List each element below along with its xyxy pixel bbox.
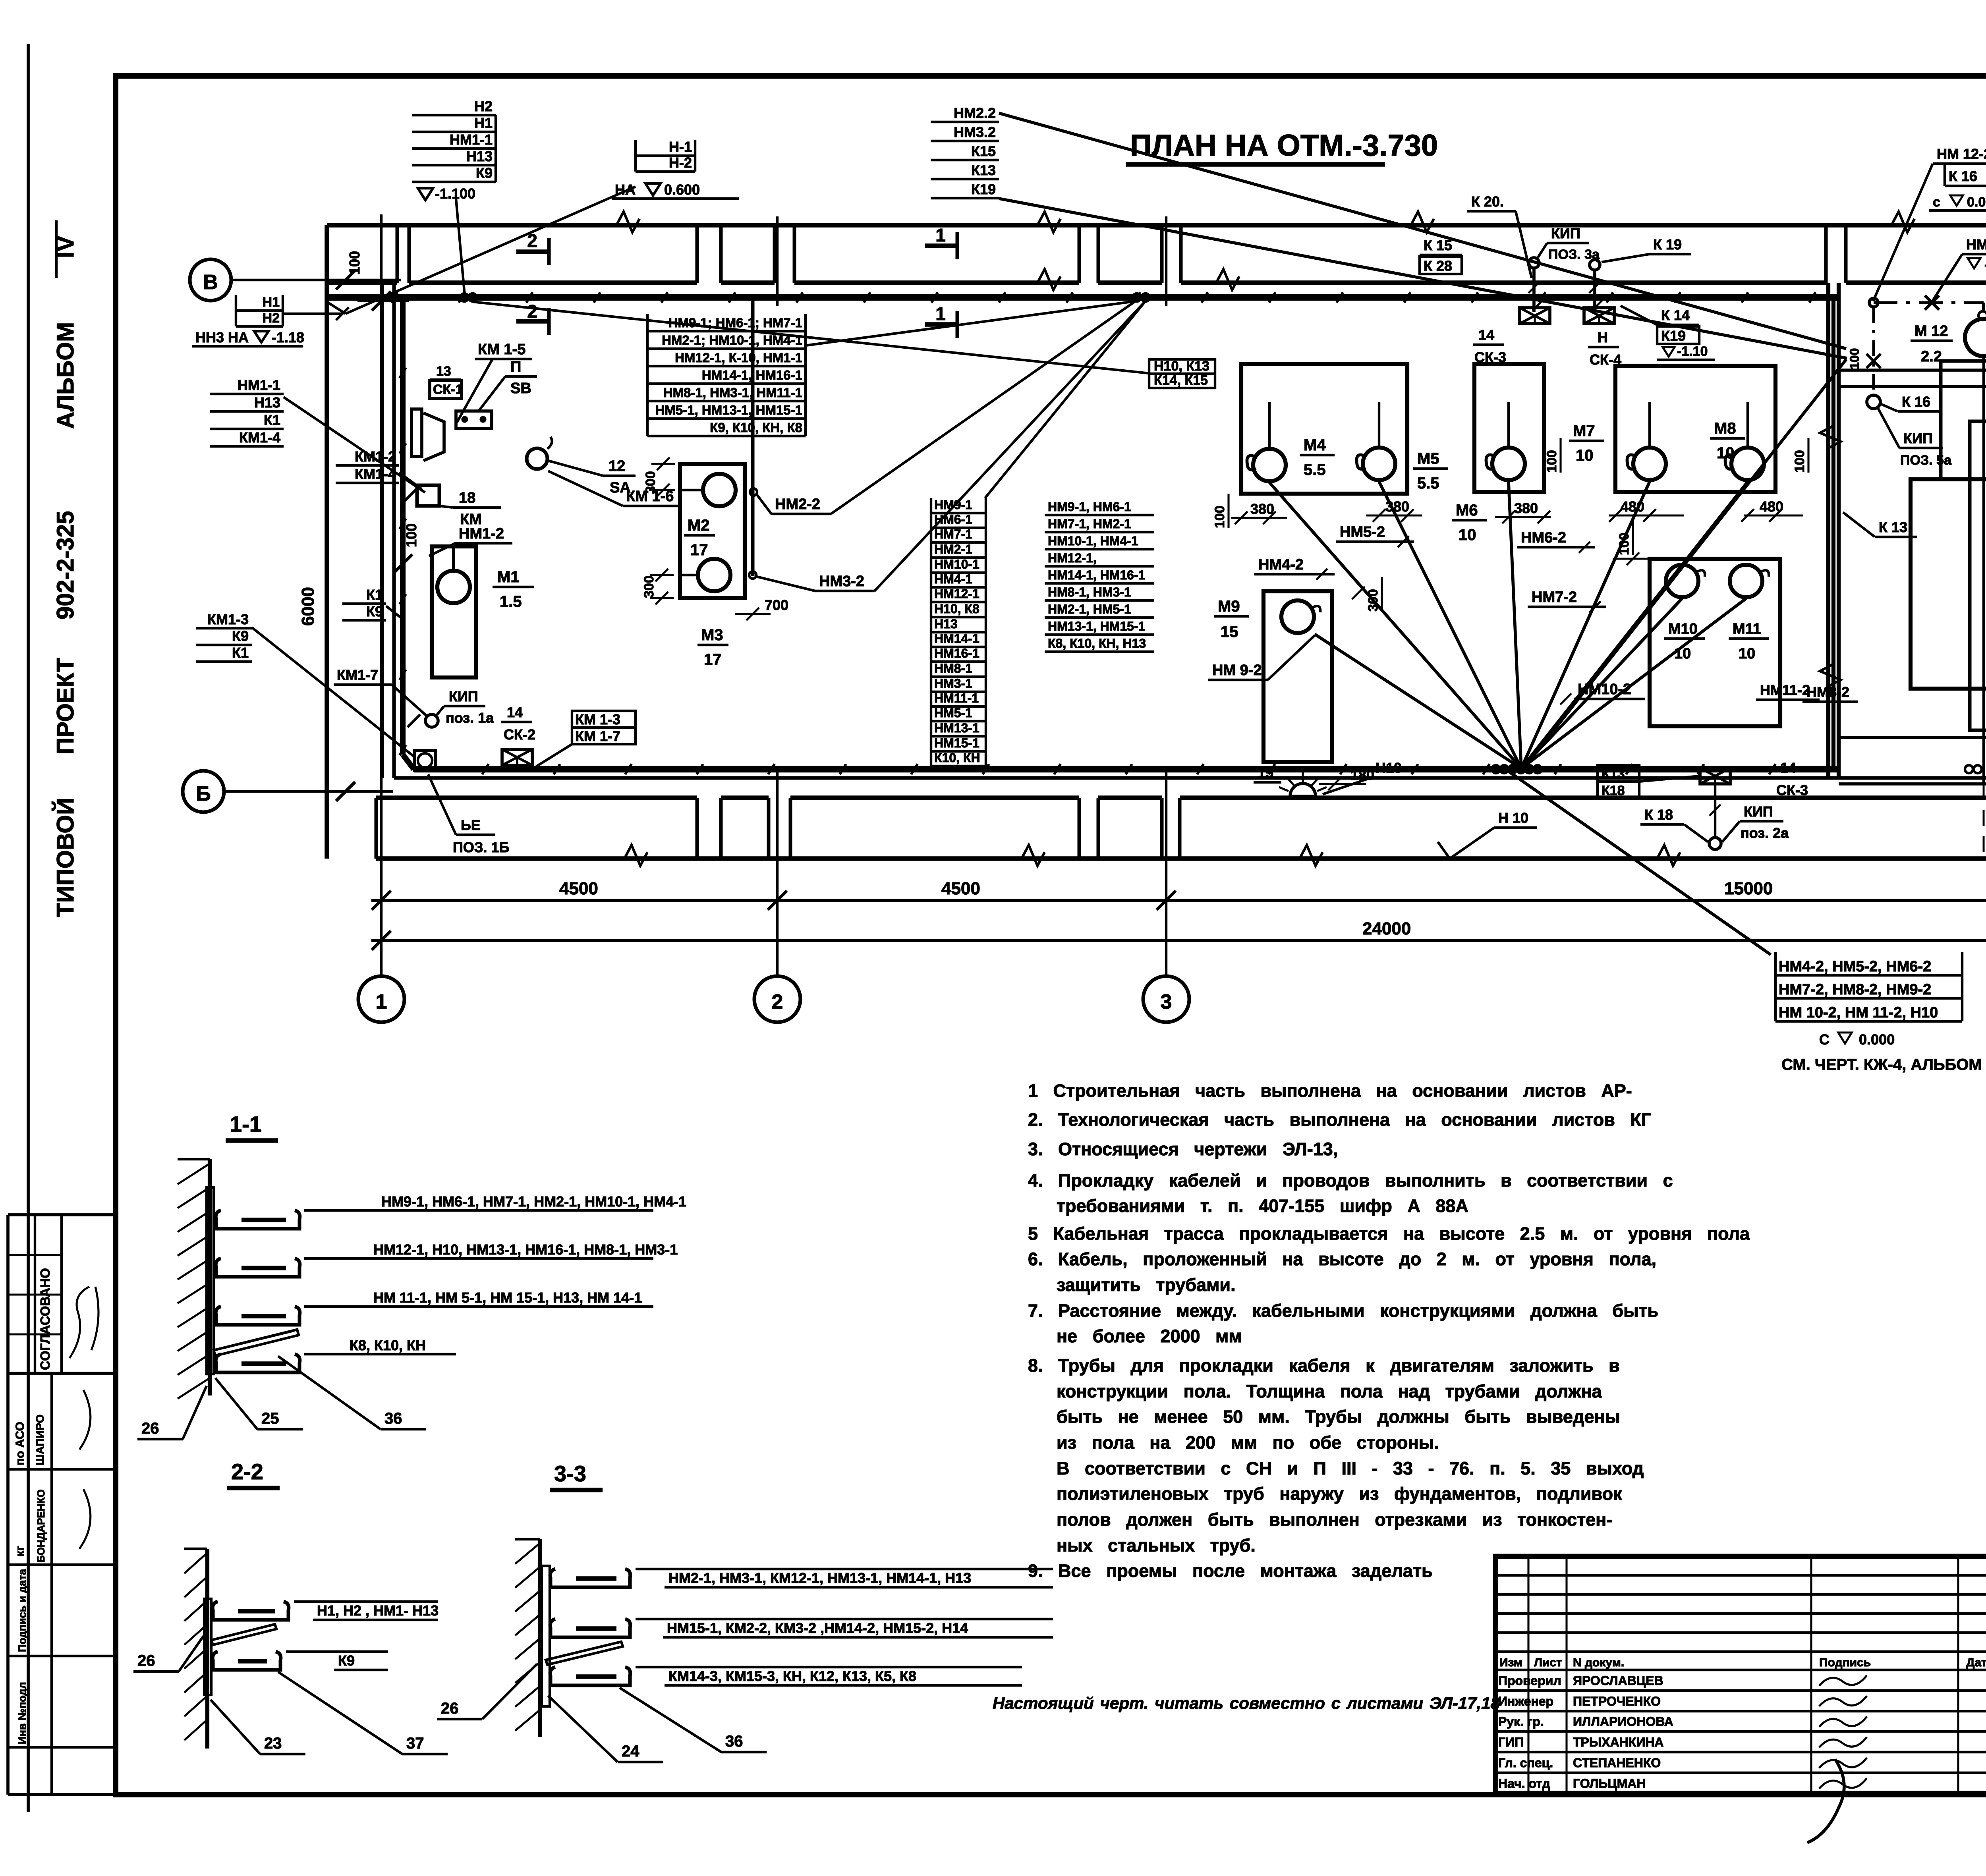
instrument KIP poz.3a circle and stem — [1529, 258, 1539, 268]
svg-text:АЛЬБОМ: АЛЬБОМ — [52, 322, 79, 429]
junction circle at dash corner left — [1869, 298, 1878, 307]
pump unit M1 rectangle — [432, 546, 476, 677]
axis line 3 — [1165, 770, 1167, 976]
svg-text:КИП: КИП — [1551, 225, 1580, 241]
svg-text:М11: М11 — [1733, 621, 1761, 637]
leader HM12-2 to cable corner — [1873, 164, 1933, 301]
filter hall bottom platform lines — [1839, 736, 1986, 739]
bottom wall outer line — [376, 856, 1986, 861]
svg-text:НМ4-1: НМ4-1 — [934, 572, 972, 586]
svg-text:НМ9-1; НМ6-1; НМ7-1: НМ9-1; НМ6-1; НМ7-1 — [668, 315, 802, 330]
motor M12 circle — [1965, 319, 1986, 356]
svg-text:2: 2 — [527, 301, 537, 322]
leader from top dots to stack A — [806, 301, 1137, 345]
svg-text:КМ1-4: КМ1-4 — [355, 466, 396, 482]
sheet left paper edge line — [27, 44, 30, 1812]
svg-text:380: 380 — [1250, 501, 1274, 517]
svg-text:36: 36 — [384, 1410, 402, 1427]
svg-text:НМ7-1: НМ7-1 — [934, 527, 972, 541]
svg-text:2: 2 — [772, 990, 783, 1013]
svg-text:1: 1 — [376, 990, 387, 1013]
svg-text:НМ15-1, КМ2-2, КМ3-2 ,НМ14-2,: НМ15-1, КМ2-2, КМ3-2 ,НМ14-2, НМ15-2, Н1… — [667, 1620, 968, 1636]
svg-text:Изм: Изм — [1499, 1656, 1522, 1669]
junction dots on top tray — [460, 293, 468, 301]
svg-text:по АСО: по АСО — [14, 1422, 27, 1465]
section cut mark 1 lower — [956, 311, 959, 338]
lamp symbol 15 — [1290, 784, 1316, 796]
svg-text:-0.7: -0.7 — [1984, 257, 1986, 272]
section 3-3 strut — [546, 1642, 623, 1665]
section 2-2 wall with hatching — [205, 1549, 209, 1749]
break marks on partition wall — [1820, 426, 1841, 449]
svg-text:Н-2: Н-2 — [669, 154, 692, 171]
svg-text:ЬЕ: ЬЕ — [461, 817, 481, 833]
svg-text:НМ7-1, НМ2-1: НМ7-1, НМ2-1 — [1048, 517, 1131, 531]
section 3-3 shelf 1 — [550, 1569, 630, 1587]
svg-text:защитить трубами.: защитить трубами. — [1057, 1275, 1236, 1295]
svg-text:НМ2-1: НМ2-1 — [934, 542, 972, 556]
svg-text:НМ15-1: НМ15-1 — [934, 736, 979, 750]
svg-text:0.600: 0.600 — [664, 181, 700, 198]
label box KM1-3 KM1-7 — [572, 711, 636, 744]
svg-text:14: 14 — [1780, 760, 1796, 776]
cable box CK-2 — [502, 749, 532, 765]
svg-text:ных стальных труб.: ных стальных труб. — [1057, 1535, 1256, 1556]
motor M11 — [1730, 565, 1762, 597]
svg-text:Н1: Н1 — [263, 295, 280, 310]
svg-text:Н13: Н13 — [254, 394, 280, 411]
svg-text:М 12: М 12 — [1915, 323, 1948, 340]
bottom wall band with openings — [375, 798, 378, 859]
svg-text:ШАПИРО: ШАПИРО — [34, 1415, 46, 1465]
svg-text:КИП: КИП — [1744, 803, 1773, 820]
pump unit M2 M3 rectangle — [680, 464, 745, 598]
grid circle 2 — [754, 976, 800, 1022]
junction dots M2 M3 riser — [750, 488, 757, 496]
svg-text:26: 26 — [141, 1420, 159, 1437]
svg-text:5 Кабельная трасса прокла: 5 Кабельная трасса прокладывается на выс… — [1028, 1224, 1750, 1244]
pump unit M9 — [1263, 591, 1332, 762]
svg-text:НМ5-1, НМ13-1, НМ15-1: НМ5-1, НМ13-1, НМ15-1 — [655, 403, 802, 417]
margin approval table — [8, 1213, 116, 1216]
svg-text:НМ 12-2: НМ 12-2 — [1937, 146, 1986, 162]
svg-text:ТРЫХАНКИНА: ТРЫХАНКИНА — [1573, 1735, 1664, 1749]
svg-text:Подпись и дата: Подпись и дата — [16, 1569, 28, 1652]
svg-text:КИП: КИП — [1903, 430, 1933, 446]
section 2-2 shelf 2 — [213, 1652, 281, 1670]
svg-text:2.2: 2.2 — [1921, 348, 1942, 365]
svg-text:Проверил: Проверил — [1498, 1673, 1561, 1688]
svg-text:Н 10: Н 10 — [1498, 810, 1528, 826]
svg-text:СК-3: СК-3 — [1776, 782, 1808, 798]
svg-text:НМ14-1, НМ16-1: НМ14-1, НМ16-1 — [1048, 568, 1145, 582]
svg-text:К9: К9 — [232, 628, 249, 644]
svg-text:НМ11-1: НМ11-1 — [934, 691, 979, 705]
svg-text:Н1, Н2 , НМ1- Н13: Н1, Н2 , НМ1- Н13 — [317, 1602, 439, 1619]
svg-text:К 13: К 13 — [1879, 519, 1907, 535]
svg-text:Н-1: Н-1 — [669, 139, 692, 155]
pump M1 motor circle — [437, 571, 470, 603]
leader H1H2 to wall — [283, 313, 342, 315]
svg-text:1: 1 — [935, 225, 946, 245]
svg-text:КМ 1-3: КМ 1-3 — [575, 711, 620, 728]
motor M8 — [1731, 448, 1764, 480]
axis line 1 — [380, 214, 383, 976]
svg-text:18: 18 — [459, 490, 475, 506]
svg-text:НМ10-1, НМ4-1: НМ10-1, НМ4-1 — [1048, 534, 1138, 548]
section 1-1 shelf 3 — [216, 1307, 300, 1325]
break mark on top wall — [616, 212, 639, 232]
svg-text:НМ10-1: НМ10-1 — [934, 557, 979, 571]
title block outline — [1495, 1556, 1986, 1793]
svg-text:12: 12 — [609, 458, 625, 475]
svg-text:КМ14-3, КМ15-3, КН, К12, К1: КМ14-3, КМ15-3, КН, К12, К13, К5, К8 — [668, 1668, 916, 1684]
svg-text:М6: М6 — [1456, 502, 1478, 519]
svg-text:100: 100 — [1544, 450, 1559, 473]
svg-text:1: 1 — [935, 303, 946, 324]
svg-text:М4: М4 — [1304, 436, 1326, 454]
svg-text:380: 380 — [1514, 500, 1538, 516]
section cut mark 2 upper — [547, 238, 551, 265]
svg-text:36: 36 — [725, 1733, 743, 1750]
cable box CK-3 top — [1520, 308, 1550, 324]
title block revision rows — [1495, 1574, 1986, 1577]
floor box symbol — [415, 751, 435, 770]
filter tank 1 inner channel — [1970, 421, 1986, 730]
svg-text:14: 14 — [1478, 327, 1494, 343]
svg-text:НМ6-2: НМ6-2 — [1521, 529, 1566, 546]
grid circle 1 — [358, 976, 404, 1022]
svg-text:ПОЗ. 1Б: ПОЗ. 1Б — [453, 839, 509, 855]
motor M5 — [1363, 448, 1395, 480]
svg-text:К 28: К 28 — [1424, 258, 1452, 274]
section 2-2 mounting profile — [204, 1599, 211, 1695]
svg-text:НМ9-1, НМ6-1, НМ7-1, НМ2-1, НМ: НМ9-1, НМ6-1, НМ7-1, НМ2-1, НМ10-1, НМ4-… — [381, 1193, 686, 1210]
svg-text:НМ8-1, НМ3-1, НМ11-1: НМ8-1, НМ3-1, НМ11-1 — [663, 385, 802, 400]
cable riser to M2 M3 — [751, 297, 755, 576]
cable tray bottom run — [403, 755, 414, 769]
svg-text:Настоящий черт. читать совме: Настоящий черт. читать совместно с листа… — [993, 1694, 1500, 1712]
svg-text:не более 2000 мм: не более 2000 мм — [1057, 1326, 1242, 1346]
svg-text:поз. 2а: поз. 2а — [1741, 825, 1789, 841]
pushbutton П SB — [456, 411, 492, 428]
cable tray along top wall — [327, 294, 1839, 301]
section 2-2 strut — [211, 1624, 276, 1645]
cable box CK-4 top — [1584, 308, 1614, 324]
svg-text:100: 100 — [1212, 506, 1227, 528]
svg-text:К 20.: К 20. — [1471, 193, 1504, 210]
svg-text:НМ3.2: НМ3.2 — [954, 124, 996, 140]
svg-text:13: 13 — [436, 364, 451, 379]
svg-text:с: с — [1933, 195, 1940, 210]
svg-text:НМ7-2, НМ8-2, НМ9-2: НМ7-2, НМ8-2, НМ9-2 — [1779, 981, 1931, 998]
svg-text:М2: М2 — [688, 517, 710, 534]
svg-text:НМ2-1, НМ5-1: НМ2-1, НМ5-1 — [1048, 602, 1131, 616]
motor M10 — [1666, 565, 1698, 597]
svg-text:НМ8-1: НМ8-1 — [934, 661, 972, 676]
svg-text:Гл. спец.: Гл. спец. — [1498, 1756, 1553, 1770]
top wall outer line — [327, 223, 1986, 228]
section 3-3 wall with hatching — [538, 1539, 542, 1737]
svg-text:9. Все проемы после: 9. Все проемы после монтажа заделать — [1028, 1561, 1433, 1581]
svg-text:Лист: Лист — [1534, 1656, 1562, 1669]
svg-text:Н13: Н13 — [466, 148, 493, 164]
svg-text:0.000: 0.000 — [1859, 1031, 1895, 1048]
svg-text:КИП: КИП — [449, 688, 478, 704]
section 1-1 wall with hatching — [208, 1159, 212, 1395]
svg-text:НМ 11-1, НМ 5-1, НМ 15-1,: НМ 11-1, НМ 5-1, НМ 15-1, Н13, НМ 14-1 — [373, 1289, 642, 1306]
svg-text:ПОЗ. 5а: ПОЗ. 5а — [1900, 453, 1952, 468]
svg-text:НМ7-2: НМ7-2 — [1532, 589, 1577, 606]
svg-text:24: 24 — [622, 1743, 639, 1760]
svg-text:Н13: Н13 — [934, 617, 958, 631]
svg-text:М5: М5 — [1417, 450, 1439, 467]
svg-text:НМ1-1: НМ1-1 — [450, 131, 493, 148]
svg-text:10: 10 — [1576, 447, 1594, 464]
svg-text:SB: SB — [510, 380, 531, 397]
svg-text:23: 23 — [264, 1735, 282, 1752]
svg-text:ТИПОВОЙ: ТИПОВОЙ — [52, 798, 79, 917]
svg-text:НМ14-1, НМ16-1: НМ14-1, НМ16-1 — [702, 368, 802, 382]
svg-text:НМ3-2: НМ3-2 — [819, 573, 864, 590]
svg-text:полов должен быть вы: полов должен быть выполнен отрезками из … — [1057, 1509, 1612, 1530]
svg-text:К19: К19 — [1661, 328, 1686, 344]
svg-text:К 14: К 14 — [1661, 307, 1690, 323]
axis line B (В) with circle — [231, 279, 401, 281]
svg-text:Н10: Н10 — [1376, 760, 1402, 776]
svg-text:НМ16-1: НМ16-1 — [934, 646, 979, 660]
svg-text:Нач. отд: Нач. отд — [1498, 1776, 1550, 1791]
svg-text:5.5: 5.5 — [1417, 475, 1439, 492]
cross mark on cable at 4864 — [1925, 295, 1939, 310]
leader HM2-2 up to wall dots — [831, 300, 1137, 514]
svg-text:Инженер: Инженер — [1498, 1694, 1553, 1708]
section 3-3 mounting profile — [542, 1566, 550, 1706]
svg-text:СК-2: СК-2 — [504, 726, 535, 743]
svg-text:6000: 6000 — [298, 587, 318, 626]
left wall inner lines — [381, 283, 384, 778]
svg-text:ЯРОСЛАВЦЕВ: ЯРОСЛАВЦЕВ — [1573, 1673, 1663, 1688]
svg-text:БОНДАРЕНКО: БОНДАРЕНКО — [35, 1489, 47, 1563]
margin table row: по АСО Шапиро — [8, 1468, 116, 1471]
svg-text:КМ1-2: КМ1-2 — [355, 448, 396, 465]
filter hall platform edge lines — [1839, 369, 1986, 372]
svg-text:кг: кг — [14, 1546, 27, 1557]
section 1-1 mounting profile — [207, 1187, 214, 1374]
svg-text:К9: К9 — [476, 165, 493, 181]
left wall outer line — [325, 225, 329, 859]
svg-text:К9, К10, КН, К8: К9, К10, КН, К8 — [710, 420, 802, 435]
grid circle 3 — [1143, 976, 1189, 1022]
svg-text:N докум.: N докум. — [1573, 1656, 1624, 1669]
svg-text:К9: К9 — [366, 603, 383, 620]
pump bay wall B — [1474, 364, 1544, 492]
filter tank 1 center line — [1982, 356, 1985, 784]
pump bay wall C — [1615, 366, 1775, 492]
svg-text:0.080: 0.080 — [1967, 195, 1986, 210]
svg-text:быть не менее 50 мм.: быть не менее 50 мм. Трубы должны быть в… — [1057, 1407, 1620, 1427]
section 2-2 shelf 1 — [213, 1602, 289, 1620]
svg-text:10: 10 — [1739, 645, 1755, 662]
svg-text:НМ2-2: НМ2-2 — [775, 496, 820, 513]
svg-text:7. Расстояние между. ка: 7. Расстояние между. кабельными конструк… — [1028, 1301, 1658, 1321]
svg-text:Н10, К8: Н10, К8 — [934, 602, 979, 616]
svg-text:НМ3-1: НМ3-1 — [934, 676, 972, 691]
title block signature rows — [1495, 1689, 1986, 1692]
cable box CK-3 at bottom — [1700, 768, 1730, 784]
section 3-3 shelf 3 — [550, 1667, 630, 1685]
leader from HM1-1 stack to wall — [284, 397, 425, 492]
svg-text:СМ. ЧЕРТ. КЖ-4, АЛЬБОМ III.: СМ. ЧЕРТ. КЖ-4, АЛЬБОМ III. — [1781, 1056, 1986, 1073]
instrument KIP poz.2a below wall — [1714, 784, 1716, 837]
bell KM1-6 — [527, 448, 547, 469]
svg-text:4. Прокладку кабелей и: 4. Прокладку кабелей и проводов выполнит… — [1028, 1170, 1673, 1191]
svg-text:Б: Б — [196, 782, 211, 805]
svg-text:902-2-325: 902-2-325 — [52, 511, 79, 620]
svg-text:СТЕПАНЕНКО: СТЕПАНЕНКО — [1573, 1756, 1661, 1770]
svg-text:НМ1-1: НМ1-1 — [238, 377, 280, 393]
svg-text:К10, КН: К10, КН — [934, 751, 980, 765]
svg-text:В соответствии с СН и: В соответствии с СН и П III - 33 - 76. п… — [1057, 1458, 1644, 1478]
svg-text:НМ5-1: НМ5-1 — [934, 706, 972, 720]
svg-text:К13: К13 — [1602, 766, 1625, 782]
section 1-1 shelf 1 — [216, 1210, 300, 1229]
svg-text:НМ5-2: НМ5-2 — [1340, 524, 1385, 540]
cable tray left wall riser — [400, 297, 406, 755]
svg-text:НМ12-1,: НМ12-1, — [1048, 551, 1097, 565]
svg-text:К 19: К 19 — [1653, 236, 1682, 253]
svg-text:НМ2.2: НМ2.2 — [954, 105, 996, 121]
svg-text:полиэтиленовых труб на: полиэтиленовых труб наружу из фундаменто… — [1057, 1484, 1622, 1504]
top wall inner line with openings — [327, 280, 397, 285]
svg-text:6. Кабель, проложенный: 6. Кабель, проложенный на высоте до 2 м.… — [1028, 1249, 1656, 1269]
svg-text:100: 100 — [403, 523, 419, 547]
svg-text:СОГЛАСОВАНО: СОГЛАСОВАНО — [38, 1268, 52, 1370]
pump bay wall A — [1241, 364, 1407, 494]
instrument KIP poz.1a — [425, 714, 438, 727]
svg-text:К19: К19 — [971, 181, 996, 197]
svg-text:КМ 1-5: КМ 1-5 — [478, 341, 525, 358]
dimension line 4500+4500+15000 — [371, 899, 1986, 902]
svg-text:100: 100 — [1792, 450, 1807, 473]
svg-text:Инв №подл: Инв №подл — [16, 1682, 28, 1744]
svg-text:100: 100 — [1847, 348, 1862, 369]
svg-text:К1: К1 — [232, 645, 249, 661]
dimension line 24000 — [371, 939, 1986, 942]
motor M3 — [698, 559, 730, 591]
svg-text:СК-4: СК-4 — [1590, 351, 1621, 368]
section 1-1 shelf 2 — [216, 1258, 300, 1277]
svg-text:ПЕТРОЧЕНКО: ПЕТРОЧЕНКО — [1573, 1694, 1661, 1708]
svg-text:15: 15 — [1258, 764, 1273, 781]
svg-text:НМ 10-2, НМ 11-2, Н10: НМ 10-2, НМ 11-2, Н10 — [1779, 1004, 1938, 1021]
svg-text:НМ8-1, НМ3-1: НМ8-1, НМ3-1 — [1048, 585, 1131, 599]
label box H10 K13 K14 K15 — [1149, 359, 1215, 388]
leader from fan to label block at lower right — [1505, 769, 1771, 955]
elevation mark -1.100 — [418, 188, 433, 200]
leader KM1-7 — [392, 685, 428, 717]
svg-text:НН3 НА: НН3 НА — [195, 329, 249, 345]
motor M7 — [1633, 448, 1666, 480]
svg-text:НМ11-2: НМ11-2 — [1760, 682, 1810, 698]
svg-text:М9: М9 — [1218, 598, 1240, 615]
svg-text:3. Относящиеся чертежи Э: 3. Относящиеся чертежи ЭЛ-13, — [1028, 1139, 1338, 1159]
svg-text:КМ1-7: КМ1-7 — [337, 667, 378, 683]
svg-text:НМ12-1, Н10, НМ13-1, НМ16-1: НМ12-1, Н10, НМ13-1, НМ16-1, НМ8-1, НМ3-… — [373, 1241, 678, 1258]
title block column lines — [1527, 1556, 1529, 1793]
junction dots at fan point — [1492, 765, 1500, 773]
svg-text:ГОЛЬЦМАН: ГОЛЬЦМАН — [1573, 1776, 1646, 1791]
svg-text:К1: К1 — [366, 587, 383, 603]
svg-text:М10: М10 — [1668, 621, 1698, 637]
signature flourish below stamp — [1807, 1759, 1844, 1843]
break mark on inner top wall line — [1037, 269, 1061, 290]
svg-text:Рук. гр.: Рук. гр. — [1498, 1714, 1544, 1729]
leader from H2 stack to wall — [456, 199, 465, 296]
leader from top dots to stack C — [985, 301, 1146, 498]
svg-text:К 16: К 16 — [1949, 168, 1977, 184]
svg-text:1.5: 1.5 — [500, 593, 522, 610]
svg-text:К 18: К 18 — [1644, 807, 1673, 823]
svg-text:М1: М1 — [497, 568, 520, 586]
svg-text:НМ4-2, НМ5-2, НМ6-2: НМ4-2, НМ5-2, НМ6-2 — [1779, 958, 1931, 975]
svg-text:4500: 4500 — [941, 879, 980, 898]
svg-text:ПЛАН НА ОТМ.-3.730: ПЛАН НА ОТМ.-3.730 — [1130, 129, 1438, 162]
svg-text:17: 17 — [690, 541, 708, 559]
svg-text:ГИП: ГИП — [1498, 1735, 1524, 1749]
svg-text:М3: М3 — [701, 626, 723, 644]
svg-text:ИЛЛАРИОНОВА: ИЛЛАРИОНОВА — [1573, 1714, 1673, 1729]
svg-text:СК-3: СК-3 — [1474, 349, 1506, 365]
svg-text:К14, К15: К14, К15 — [1154, 373, 1208, 388]
svg-text:В: В — [203, 271, 218, 294]
svg-text:15000: 15000 — [1724, 879, 1773, 898]
svg-text:К9: К9 — [338, 1652, 355, 1669]
switch box 18 KM — [417, 485, 439, 506]
svg-text:поз. 1а: поз. 1а — [446, 710, 494, 726]
svg-text:НМ1-2: НМ1-2 — [459, 525, 504, 542]
svg-text:КМ1-4: КМ1-4 — [239, 429, 280, 446]
svg-text:НМ9-1: НМ9-1 — [934, 498, 972, 512]
section 1-1 shelf 4 — [216, 1354, 300, 1372]
svg-text:10: 10 — [1459, 526, 1476, 544]
svg-text:КМ 1-7: КМ 1-7 — [575, 728, 620, 744]
svg-text:К13: К13 — [971, 162, 996, 178]
svg-text:-1.10: -1.10 — [1677, 344, 1708, 359]
motor M4 — [1253, 449, 1286, 481]
svg-text:К 15: К 15 — [1424, 237, 1452, 253]
svg-text:24000: 24000 — [1362, 919, 1411, 938]
long leader lines to CK-4 area — [999, 113, 1846, 349]
axis line 2 — [776, 770, 779, 976]
lower pump unit M10 M11 — [1650, 559, 1780, 726]
section cut mark 2 lower — [547, 308, 551, 335]
svg-text:Н: Н — [1598, 329, 1608, 345]
motor M2 — [703, 474, 736, 506]
svg-text:конструкции пола. Тол: конструкции пола. Толщина пола над труба… — [1057, 1381, 1602, 1401]
svg-text:КМ1-3: КМ1-3 — [207, 611, 249, 627]
svg-text:Дата: Дата — [1966, 1656, 1986, 1669]
svg-text:НМ12-1: НМ12-1 — [934, 587, 979, 601]
leader HM12-2 -0.7 to cross — [1932, 254, 1962, 302]
fan of cable leaders from floor point — [1269, 483, 1521, 768]
leader KM1-3 to floor box — [252, 627, 415, 758]
leader across hall to fan point — [1525, 359, 1846, 766]
filter tank 1 big rect — [1911, 479, 1986, 689]
svg-text:НМ4-2: НМ4-2 — [1258, 556, 1304, 573]
svg-text:НМ 12-2: НМ 12-2 — [1966, 236, 1986, 253]
svg-text:К8, К10, КН, Н13: К8, К10, КН, Н13 — [1048, 636, 1146, 650]
